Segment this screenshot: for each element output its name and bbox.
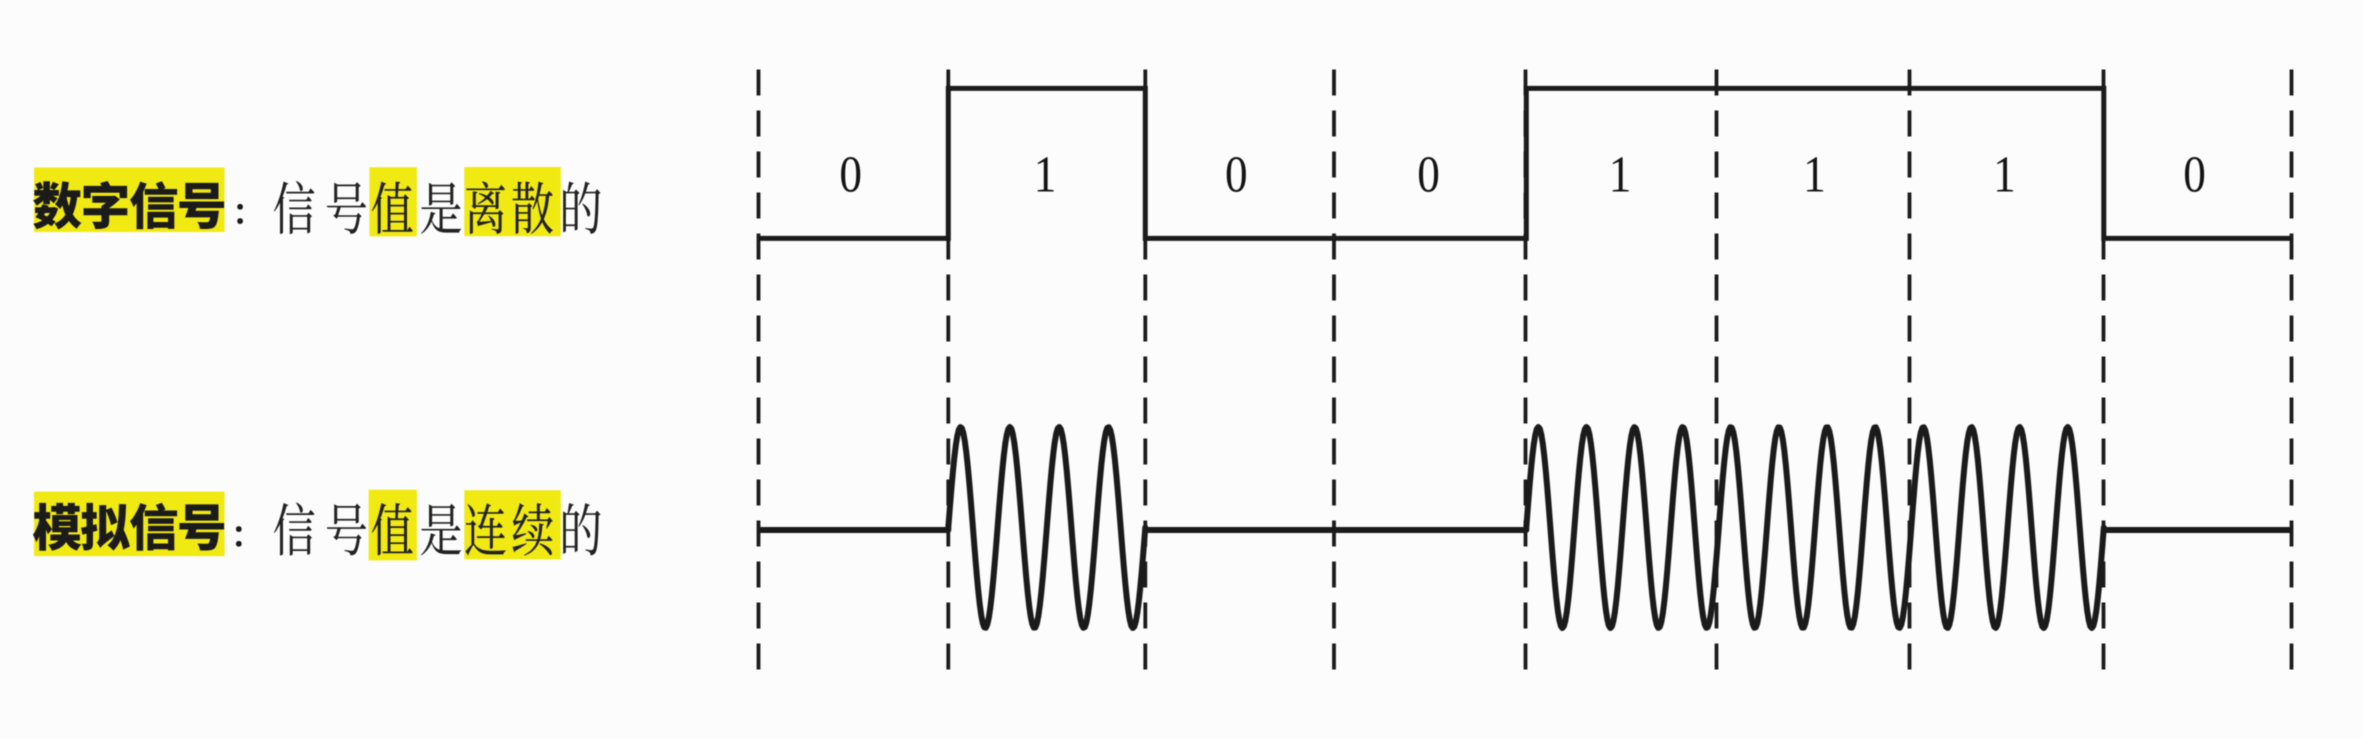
serif text 信号值是连续的: [274, 503, 601, 556]
svg-text:0: 0: [839, 145, 862, 203]
svg-text:1: 1: [1993, 145, 2016, 203]
bit boundary dashed line 4: [1332, 70, 1336, 678]
svg-text:0: 0: [2183, 145, 2206, 203]
bold label 模拟信号: [33, 503, 224, 551]
digital waveform 01001110: [759, 88, 2293, 238]
svg-text:1: 1: [1034, 145, 1057, 203]
bit boundary dashed line 1: [757, 70, 761, 678]
serif text 信号值是离散的: [274, 181, 601, 234]
bit boundary dashed line 6: [1715, 70, 1719, 678]
bit boundary dashed line 3: [1143, 70, 1147, 678]
bit boundary dashed line 5: [1524, 70, 1528, 678]
yellow highlight behind 连续: [464, 490, 561, 559]
yellow highlight behind label 模拟信号: [34, 492, 225, 556]
yellow highlight behind 离散: [464, 167, 561, 236]
bit boundary dashed line 7: [1908, 70, 1912, 678]
svg-text:1: 1: [1803, 145, 1826, 203]
bold label 数字信号: [33, 181, 224, 229]
yellow highlight behind label 数字信号: [34, 168, 225, 233]
svg-text:0: 0: [1225, 145, 1248, 203]
colon after 数字信号: [237, 204, 243, 224]
yellow highlight behind 值 (row 2): [369, 490, 417, 561]
svg-text:0: 0: [1417, 145, 1440, 203]
bit boundary dashed line 8: [2102, 70, 2106, 678]
analog waveform (sine bursts for 1 bits): [759, 427, 2292, 628]
colon after 模拟信号: [236, 526, 242, 546]
yellow highlight behind 值 (row 1): [369, 167, 417, 236]
bit boundary dashed line 9: [2290, 70, 2294, 678]
bit boundary dashed line 2: [946, 70, 950, 678]
svg-text:1: 1: [1609, 145, 1632, 203]
